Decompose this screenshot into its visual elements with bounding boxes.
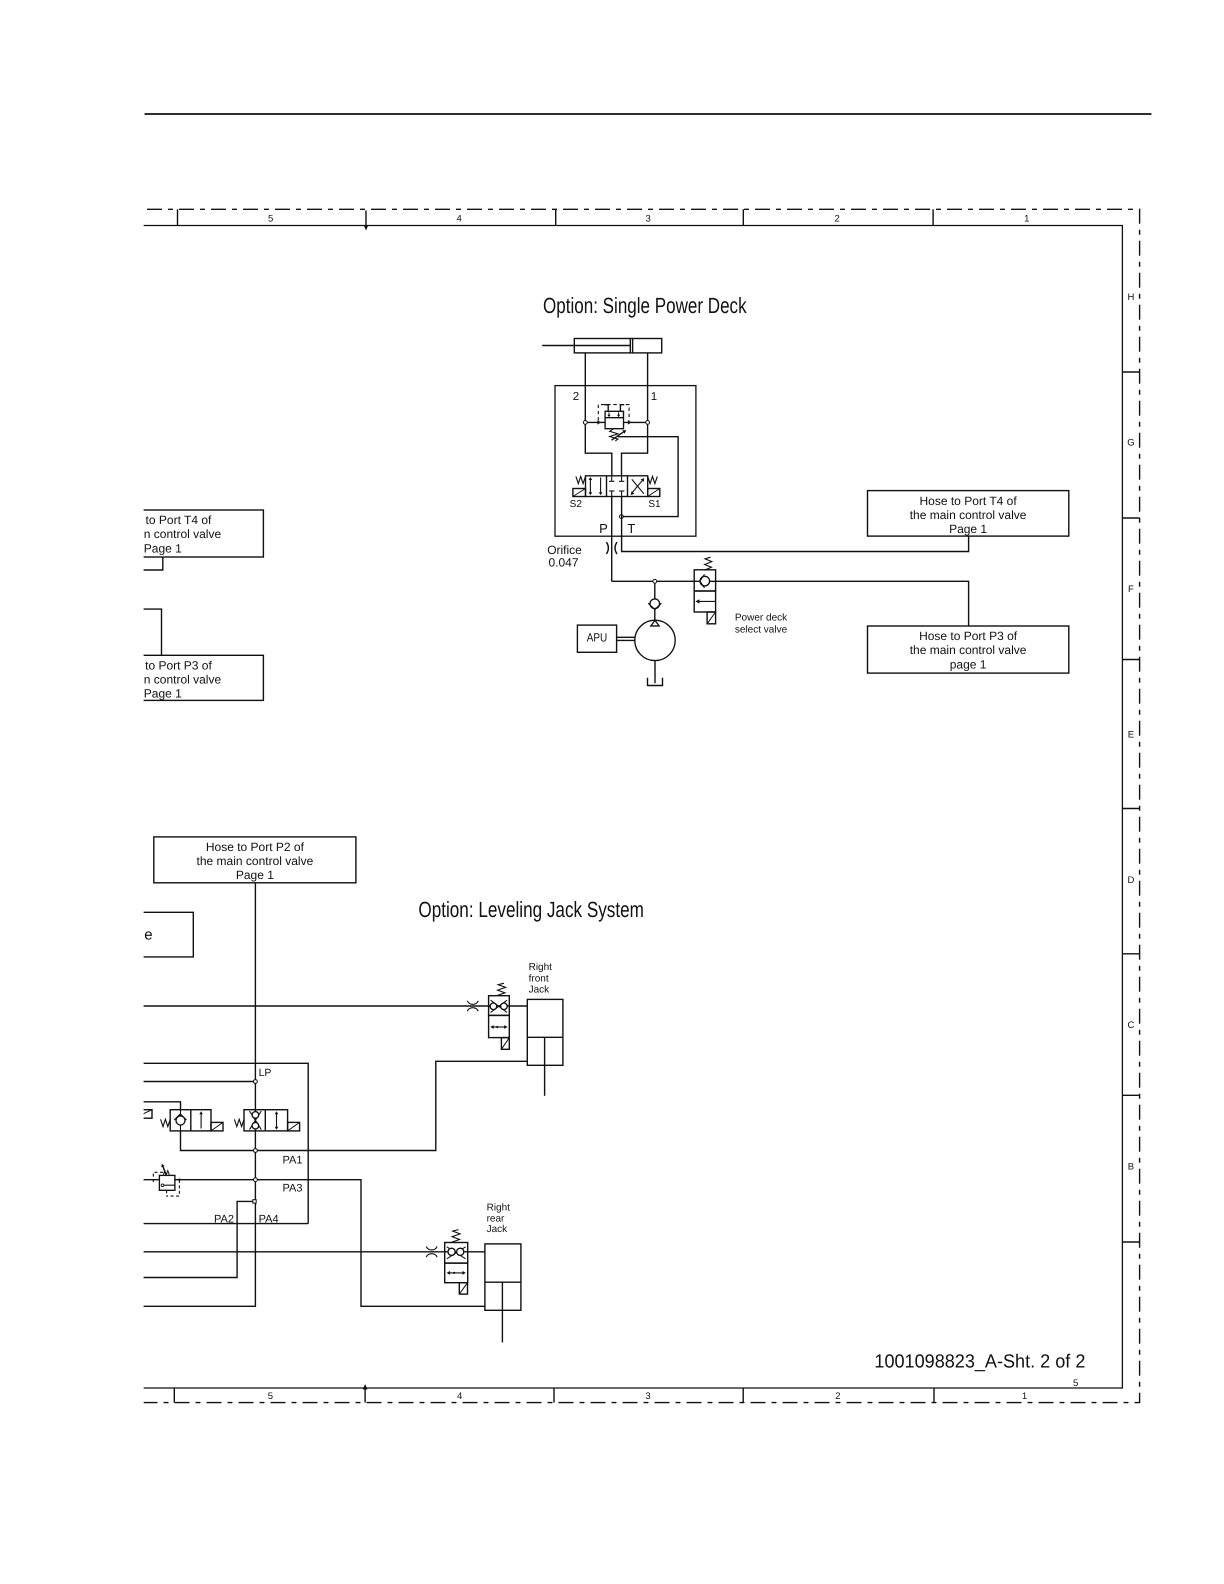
- svg-text:Hose to Port P3 of: Hose to Port P3 of: [919, 629, 1018, 643]
- APU box: [577, 625, 616, 652]
- V1 arrow cell: [200, 1113, 202, 1129]
- bottom centerline arrow: [364, 1386, 366, 1403]
- wire P3 left box: [143, 609, 162, 655]
- CB node left: [583, 421, 587, 425]
- svg-text:rear: rear: [487, 1213, 505, 1224]
- svg-text:Page 1: Page 1: [144, 687, 182, 701]
- U1 spring left: [576, 476, 586, 483]
- valve V2 body: [244, 1110, 288, 1131]
- directional valve U1 body: [586, 476, 648, 497]
- tank symbol: [648, 678, 663, 686]
- border dash-dot outer frame: [144, 209, 1140, 1402]
- select valve spring: [704, 557, 712, 570]
- V2 arrow cell: [276, 1113, 278, 1128]
- V1 check cell (ball in seat): [180, 1110, 182, 1117]
- svg-text:1001098823_A-Sht. 2 of 2: 1001098823_A-Sht. 2 of 2: [874, 1352, 1085, 1373]
- U1 spring right: [648, 476, 658, 483]
- top centerline arrow: [365, 211, 367, 229]
- rear jack valve spring: [452, 1230, 461, 1243]
- V2 solenoid: [288, 1122, 300, 1131]
- wire V1 to PA1 line: [181, 1061, 528, 1150]
- V2 spring: [234, 1119, 244, 1126]
- svg-text:F: F: [1128, 584, 1134, 595]
- V1 spring: [161, 1119, 171, 1126]
- reducing valve spring: [163, 1171, 169, 1175]
- svg-text:G: G: [1127, 438, 1134, 449]
- pump outlet triangle: [651, 620, 659, 626]
- reducing valve body: [159, 1175, 175, 1190]
- hose label box P2: [154, 837, 356, 883]
- plugged port square node: [253, 1200, 256, 1203]
- APU drive double line: [617, 636, 635, 638]
- front jack cylinder: [527, 999, 563, 1065]
- U1 solenoid S2 box: [573, 489, 586, 497]
- wire A (front jack supply): [143, 1005, 527, 1007]
- svg-text:Right: Right: [487, 1203, 511, 1214]
- V1 solenoid: [211, 1122, 223, 1131]
- quick disconnect rear: [426, 1246, 437, 1250]
- svg-text:3: 3: [645, 213, 650, 224]
- quick disconnect front: [467, 1001, 478, 1005]
- wire B with LP branch: [143, 1063, 308, 1223]
- rear jack valve: flow cell: [445, 1263, 468, 1283]
- junction on T line: [620, 515, 624, 519]
- pressure reducing valve dashed pilot loop: [153, 1172, 163, 1182]
- right zone ticks: [1122, 371, 1139, 373]
- svg-text:S1: S1: [648, 499, 661, 510]
- CB top pilot hooks: [604, 405, 608, 412]
- manifold block outline: [555, 386, 696, 537]
- top zone ticks: [177, 209, 179, 225]
- V2 shuttle cell: [250, 1111, 262, 1130]
- svg-text:4: 4: [457, 213, 462, 224]
- svg-text:PA1: PA1: [283, 1155, 303, 1167]
- svg-text:2: 2: [573, 391, 579, 403]
- wire T4 left box: [143, 557, 163, 570]
- svg-text:Right: Right: [529, 962, 553, 973]
- front jack valve: flow cell: [489, 1015, 510, 1037]
- wire port2 (cylinder to CB valve): [585, 353, 612, 476]
- wire port1 (cylinder to valve): [622, 353, 648, 476]
- CB node right: [646, 421, 650, 425]
- hose label box T4 left: [62, 510, 263, 557]
- svg-text:5: 5: [268, 1391, 273, 1402]
- border solid inner frame: [144, 226, 1123, 1389]
- hose label box P3 right: [868, 626, 1069, 673]
- select valve solenoid: [707, 612, 716, 624]
- svg-text:Hose to Port T4 of: Hose to Port T4 of: [920, 494, 1018, 508]
- P supply line to P3: [612, 581, 969, 626]
- pump junction node: [653, 579, 657, 583]
- U1 right cell cross arrows: [631, 479, 643, 494]
- svg-text:0.047: 0.047: [549, 556, 579, 570]
- hose label box P3 left: [62, 655, 263, 700]
- svg-text:Power deck: Power deck: [735, 613, 788, 624]
- svg-text:PA3: PA3: [283, 1183, 303, 1195]
- svg-text:select valve: select valve: [735, 624, 788, 635]
- svg-text:C: C: [1127, 1020, 1134, 1031]
- main supply vertical from P2: [143, 883, 255, 1307]
- P line: [611, 497, 613, 582]
- svg-text:Jack: Jack: [487, 1224, 509, 1235]
- CB adjust arrow: [612, 431, 625, 440]
- svg-text:the main control valve: the main control valve: [197, 854, 314, 868]
- wire G (rear jack supply): [143, 1251, 485, 1253]
- svg-text:Option: Leveling Jack System: Option: Leveling Jack System: [418, 897, 644, 922]
- svg-text:5: 5: [268, 213, 273, 224]
- CB flow arrows: [597, 420, 601, 424]
- svg-text:Jack: Jack: [529, 984, 551, 995]
- wire from square node: [143, 1201, 253, 1277]
- wire D to valve V1: [143, 1102, 181, 1110]
- hose label box T4 right: [868, 491, 1069, 536]
- T line: [622, 497, 969, 552]
- cylinder C1 (power deck): [574, 339, 661, 353]
- svg-text:5: 5: [1073, 1378, 1078, 1389]
- svg-text:Hose to Port P2 of: Hose to Port P2 of: [206, 840, 305, 854]
- wire node to check valve: [654, 583, 656, 599]
- clipped hose box at page edge: [130, 912, 193, 957]
- valve V1 body: [170, 1110, 211, 1131]
- svg-text:3: 3: [645, 1391, 650, 1402]
- clipped solenoid at page edge: [134, 1110, 152, 1119]
- counterbalance valve CB: pilot dashed box: [598, 405, 629, 421]
- select valve: flow cell: [694, 591, 715, 612]
- CB pilot line to T: [618, 437, 678, 517]
- svg-text:page 1: page 1: [950, 657, 987, 671]
- svg-text:H: H: [1127, 292, 1134, 303]
- svg-text:1: 1: [1022, 1391, 1027, 1402]
- svg-text:D: D: [1127, 875, 1134, 886]
- reducing valve arrow: [163, 1166, 166, 1175]
- CB internal arrows: [608, 412, 610, 416]
- sheet top rule: [145, 113, 1152, 115]
- bottom zone ticks: [173, 1388, 175, 1403]
- rear jack valve solenoid: [459, 1283, 467, 1294]
- svg-text:front: front: [529, 974, 549, 985]
- cylinder rod (left): [542, 345, 574, 347]
- svg-text:2: 2: [835, 1391, 840, 1402]
- front jack valve: dual check cell: [489, 996, 510, 1016]
- front jack valve spring: [497, 983, 506, 995]
- svg-text:LP: LP: [259, 1067, 272, 1079]
- U1 left cell arrows: [589, 479, 591, 494]
- CB spring: [610, 429, 618, 441]
- pump suction line: [654, 661, 656, 684]
- svg-text:the main control valve: the main control valve: [910, 643, 1027, 657]
- svg-text:T: T: [627, 521, 635, 536]
- svg-text:e: e: [144, 927, 152, 944]
- CB valve body: [605, 411, 623, 428]
- pump circle: [635, 620, 675, 660]
- svg-text:Option: Single Power Deck: Option: Single Power Deck: [543, 293, 747, 318]
- svg-text:S2: S2: [570, 499, 583, 510]
- svg-text:E: E: [1128, 730, 1134, 741]
- svg-text:Page 1: Page 1: [144, 541, 182, 555]
- svg-text:Page 1: Page 1: [236, 868, 274, 882]
- svg-text:B: B: [1128, 1162, 1134, 1173]
- wire F (PA2/PA4): [143, 1223, 308, 1225]
- wire C to LP node: [143, 1081, 255, 1083]
- rear jack cylinder: [485, 1244, 521, 1310]
- U1 center cell blocked ports: [611, 476, 613, 481]
- wire E (PA3): [143, 1179, 159, 1181]
- svg-text:the main control valve: the main control valve: [910, 508, 1027, 522]
- front jack valve solenoid: [501, 1038, 509, 1050]
- check valve CV1 (ball in V seat): [650, 599, 660, 609]
- svg-text:Page 1: Page 1: [949, 522, 987, 536]
- svg-text:2: 2: [834, 213, 839, 224]
- CB line across: [585, 421, 647, 423]
- U1 solenoid S1 box: [648, 489, 660, 497]
- svg-text:4: 4: [457, 1391, 462, 1402]
- svg-text:APU: APU: [587, 630, 608, 644]
- svg-text:P: P: [599, 521, 608, 536]
- power deck select valve: check cell: [694, 570, 715, 591]
- orifice symbol: [606, 542, 608, 554]
- rear jack valve: dual check cell: [445, 1243, 468, 1264]
- svg-text:1: 1: [1024, 213, 1029, 224]
- svg-text:1: 1: [651, 391, 657, 403]
